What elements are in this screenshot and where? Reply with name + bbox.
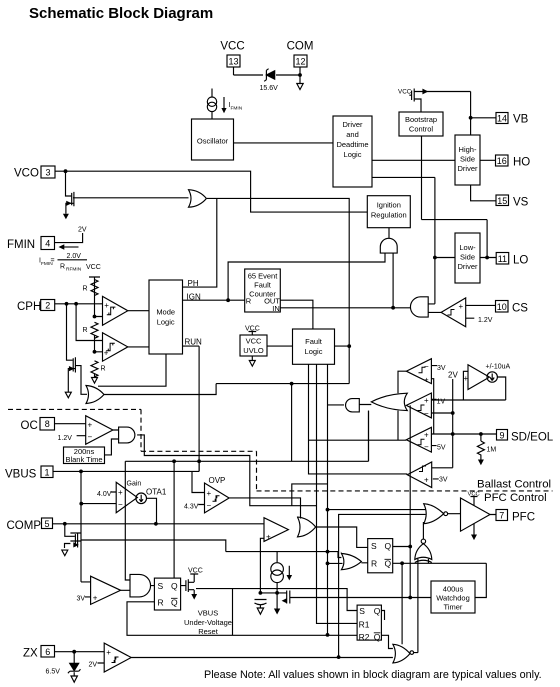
svg-text:Q: Q bbox=[171, 581, 178, 591]
svg-text:Please Note: All values shown: Please Note: All values shown in block d… bbox=[204, 669, 542, 681]
svg-text:Fault: Fault bbox=[254, 281, 272, 290]
svg-text:+: + bbox=[88, 421, 93, 430]
svg-text:VCC: VCC bbox=[220, 41, 244, 53]
svg-text:6: 6 bbox=[45, 647, 50, 657]
svg-text:9: 9 bbox=[499, 431, 504, 441]
svg-text:3V: 3V bbox=[439, 477, 448, 484]
svg-text:Deadtime: Deadtime bbox=[336, 140, 368, 149]
svg-text:5: 5 bbox=[44, 519, 49, 529]
svg-text:10: 10 bbox=[497, 302, 507, 312]
svg-text:+: + bbox=[118, 488, 123, 497]
svg-text:R: R bbox=[158, 598, 164, 608]
svg-text:High-: High- bbox=[459, 145, 477, 154]
svg-text:16: 16 bbox=[497, 156, 507, 166]
svg-text:UVLO: UVLO bbox=[243, 346, 264, 355]
svg-text:+: + bbox=[266, 533, 271, 542]
svg-text:R: R bbox=[246, 297, 252, 306]
svg-text:12: 12 bbox=[295, 57, 305, 67]
svg-text:400us: 400us bbox=[443, 585, 464, 594]
svg-text:+/-10uA: +/-10uA bbox=[486, 364, 511, 371]
svg-text:VBUS: VBUS bbox=[5, 469, 37, 481]
svg-text:+: + bbox=[424, 475, 429, 484]
svg-text:IGN: IGN bbox=[187, 293, 201, 302]
svg-text:=: = bbox=[51, 258, 55, 265]
svg-text:Control: Control bbox=[409, 125, 434, 134]
svg-text:5V: 5V bbox=[437, 445, 446, 452]
svg-text:1: 1 bbox=[44, 468, 49, 478]
svg-text:11: 11 bbox=[498, 254, 507, 264]
svg-text:7: 7 bbox=[499, 511, 504, 521]
svg-text:−: − bbox=[207, 501, 212, 510]
svg-text:8: 8 bbox=[45, 419, 50, 429]
svg-text:14: 14 bbox=[497, 114, 507, 124]
svg-text:CPH: CPH bbox=[17, 301, 41, 313]
svg-text:R: R bbox=[371, 559, 377, 569]
svg-text:VCC: VCC bbox=[245, 326, 260, 333]
svg-text:Q: Q bbox=[385, 541, 392, 551]
svg-text:Timer: Timer bbox=[444, 603, 463, 612]
svg-text:R: R bbox=[60, 264, 65, 271]
svg-text:Logic: Logic bbox=[157, 318, 175, 327]
svg-text:+: + bbox=[104, 301, 109, 310]
svg-text:2: 2 bbox=[45, 300, 50, 310]
svg-text:OVP: OVP bbox=[209, 476, 226, 485]
svg-text:2V: 2V bbox=[78, 227, 87, 234]
svg-text:SD/EOL: SD/EOL bbox=[511, 432, 554, 444]
svg-text:COMP: COMP bbox=[7, 520, 42, 532]
svg-text:VCC: VCC bbox=[398, 89, 412, 96]
svg-text:Low-: Low- bbox=[459, 243, 476, 252]
svg-text:R: R bbox=[83, 327, 88, 334]
svg-text:+: + bbox=[424, 430, 429, 439]
svg-text:1V: 1V bbox=[437, 399, 446, 406]
svg-text:Q: Q bbox=[385, 559, 392, 569]
svg-text:65 Event: 65 Event bbox=[248, 272, 279, 281]
svg-text:−: − bbox=[424, 409, 429, 418]
svg-text:Regulation: Regulation bbox=[371, 211, 407, 220]
svg-text:LO: LO bbox=[513, 255, 528, 267]
svg-text:Driver: Driver bbox=[458, 262, 479, 271]
svg-text:+: + bbox=[424, 375, 429, 384]
svg-text:Watchdog: Watchdog bbox=[436, 594, 470, 603]
svg-text:3V: 3V bbox=[437, 365, 446, 372]
svg-text:Driver: Driver bbox=[343, 120, 364, 129]
svg-text:1.2V: 1.2V bbox=[58, 435, 73, 442]
svg-text:VCC: VCC bbox=[188, 568, 203, 575]
svg-text:Reset: Reset bbox=[198, 627, 219, 636]
svg-text:R: R bbox=[83, 286, 88, 293]
svg-text:3V: 3V bbox=[77, 596, 86, 603]
svg-text:Oscillator: Oscillator bbox=[197, 137, 229, 146]
svg-text:+: + bbox=[459, 302, 464, 311]
svg-text:Blank Time: Blank Time bbox=[65, 455, 102, 464]
svg-text:PFC Control: PFC Control bbox=[484, 492, 547, 504]
svg-text:OTA1: OTA1 bbox=[146, 488, 167, 497]
svg-text:VS: VS bbox=[513, 197, 529, 209]
svg-text:Ignition: Ignition bbox=[377, 201, 401, 210]
svg-text:2V: 2V bbox=[448, 371, 458, 380]
svg-text:−: − bbox=[424, 362, 429, 371]
svg-text:Side: Side bbox=[460, 253, 475, 262]
svg-text:3: 3 bbox=[45, 168, 50, 178]
svg-text:Bootstrap: Bootstrap bbox=[405, 115, 437, 124]
svg-text:+: + bbox=[106, 648, 111, 657]
svg-text:COM: COM bbox=[287, 41, 314, 53]
svg-text:R1: R1 bbox=[359, 620, 370, 630]
svg-text:15.6V: 15.6V bbox=[260, 85, 279, 92]
svg-text:Side: Side bbox=[460, 155, 475, 164]
svg-text:+: + bbox=[464, 374, 469, 383]
svg-text:R: R bbox=[101, 366, 106, 373]
svg-text:Mode: Mode bbox=[156, 308, 175, 317]
svg-text:PH: PH bbox=[188, 279, 199, 288]
svg-text:+: + bbox=[424, 396, 429, 405]
svg-text:OC: OC bbox=[21, 420, 38, 432]
svg-text:Q: Q bbox=[374, 632, 381, 642]
svg-text:Schematic Block Diagram: Schematic Block Diagram bbox=[29, 5, 213, 22]
svg-text:−: − bbox=[424, 442, 429, 451]
svg-text:Logic: Logic bbox=[305, 347, 323, 356]
svg-text:15: 15 bbox=[497, 196, 507, 206]
svg-text:CS: CS bbox=[512, 303, 528, 315]
svg-text:and: and bbox=[346, 130, 359, 139]
svg-text:FMIN: FMIN bbox=[231, 106, 243, 112]
svg-text:VCC: VCC bbox=[86, 264, 101, 271]
svg-text:Fault: Fault bbox=[305, 337, 323, 346]
svg-text:Q: Q bbox=[374, 606, 381, 616]
svg-text:Ballast Control: Ballast Control bbox=[477, 479, 551, 491]
svg-text:+: + bbox=[93, 593, 98, 602]
svg-text:Driver: Driver bbox=[458, 164, 479, 173]
svg-text:PFC: PFC bbox=[512, 512, 535, 524]
svg-text:Q: Q bbox=[171, 598, 178, 608]
svg-text:VCC: VCC bbox=[246, 337, 262, 346]
svg-text:HO: HO bbox=[513, 157, 530, 169]
svg-text:+: + bbox=[207, 489, 212, 498]
svg-text:Under-Voltage: Under-Voltage bbox=[184, 618, 232, 627]
svg-text:1.2V: 1.2V bbox=[478, 317, 493, 324]
svg-text:IN: IN bbox=[272, 304, 280, 313]
svg-text:2.0V: 2.0V bbox=[67, 253, 82, 260]
svg-text:Gain: Gain bbox=[127, 481, 142, 488]
svg-text:R2: R2 bbox=[359, 632, 370, 642]
svg-text:VB: VB bbox=[513, 114, 529, 126]
svg-text:4: 4 bbox=[45, 239, 50, 249]
svg-text:S: S bbox=[371, 541, 377, 551]
svg-text:−: − bbox=[118, 500, 123, 509]
svg-text:13: 13 bbox=[228, 57, 238, 67]
svg-text:FMIN: FMIN bbox=[7, 239, 35, 251]
svg-text:ZX: ZX bbox=[23, 648, 38, 660]
svg-text:S: S bbox=[359, 606, 365, 616]
svg-text:−: − bbox=[88, 432, 93, 441]
svg-text:+: + bbox=[104, 348, 109, 357]
svg-text:RUN: RUN bbox=[185, 338, 203, 347]
svg-text:Logic: Logic bbox=[344, 150, 362, 159]
svg-text:6.5V: 6.5V bbox=[46, 669, 61, 676]
svg-text:S: S bbox=[158, 581, 164, 591]
svg-text:1M: 1M bbox=[487, 447, 497, 454]
svg-text:4.0V: 4.0V bbox=[97, 491, 112, 498]
svg-text:VCO: VCO bbox=[14, 168, 39, 180]
svg-text:4.3V: 4.3V bbox=[184, 504, 199, 511]
svg-text:2V: 2V bbox=[89, 662, 98, 669]
svg-text:VCC: VCC bbox=[468, 492, 480, 498]
svg-text:RFMIN: RFMIN bbox=[66, 267, 82, 273]
svg-text:VBUS: VBUS bbox=[198, 609, 218, 618]
